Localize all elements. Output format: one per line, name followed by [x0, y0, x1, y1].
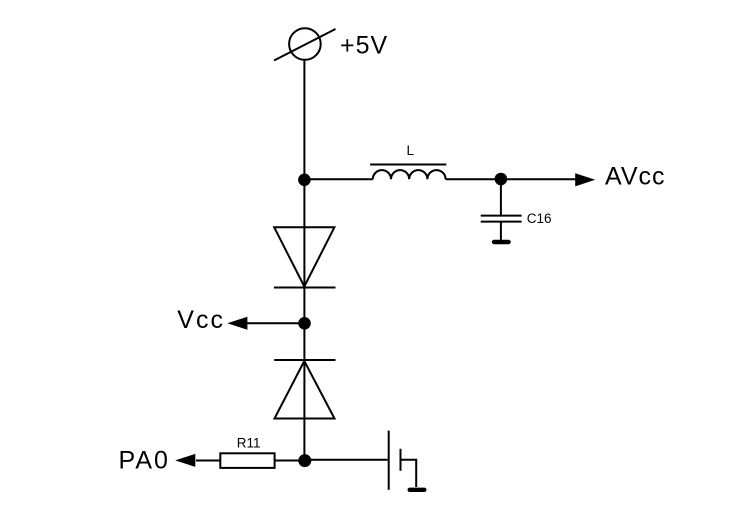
wire: node 4 to sampling capacitor [304, 459, 387, 461]
resistor R11 [220, 453, 274, 468]
svg-text:Vcc: Vcc [177, 306, 225, 334]
wire: R11 to node 4 [275, 460, 305, 462]
wire: node 1 down to diode D1 [303, 180, 305, 288]
wire: inductor to node 2 [446, 178, 501, 180]
ground bar under C16 [492, 240, 511, 244]
diode D2 (cathode top, anode bottom) [274, 359, 335, 361]
svg-text:+5V: +5V [340, 31, 388, 59]
wire: node 3 to Vcc arrow [247, 322, 305, 324]
wire: node 2 down to capacitor C16 [500, 179, 502, 215]
wire: node 1 to inductor L [304, 178, 372, 180]
svg-text:AVcc: AVcc [605, 162, 666, 190]
node 4 junction dot (PA0 net) [298, 454, 311, 467]
sampling capacitor (short plate) [400, 449, 402, 471]
svg-text:L: L [407, 143, 415, 158]
inductor L [373, 170, 446, 179]
wire: D1 cathode to node 3 (Vcc) [303, 288, 305, 361]
node 2 junction dot [495, 173, 508, 186]
node 1 junction dot [298, 174, 311, 187]
AVcc arrowhead [575, 173, 595, 186]
wire: +5V to node 1 [303, 61, 305, 180]
ground bar under sampling capacitor [408, 488, 427, 492]
wire: PA0 arrow to resistor R11 [196, 460, 220, 462]
node 3 junction dot (Vcc) [298, 317, 311, 330]
svg-text:PA0: PA0 [119, 447, 170, 475]
capacitor C16 [481, 215, 522, 217]
svg-text:C16: C16 [527, 211, 552, 226]
wire: node 2 to AVcc arrow [501, 178, 577, 180]
sampling capacitor (long plate) [388, 431, 390, 490]
power terminal +5V [289, 28, 321, 60]
wire: capacitor to ground [401, 460, 417, 487]
diode D1 (anode top, cathode bottom) [274, 227, 334, 286]
PA0 arrowhead [175, 454, 195, 467]
Vcc arrowhead [227, 317, 247, 330]
wire: D2 anode to node 4 [303, 360, 305, 461]
wire: C16 to ground [500, 223, 502, 241]
svg-text:R11: R11 [237, 436, 261, 451]
